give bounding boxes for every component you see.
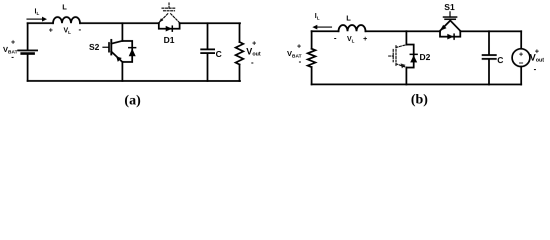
svg-text:(b): (b): [411, 93, 428, 108]
svg-text:IL: IL: [315, 13, 320, 21]
wire: right branch bottom (a): [238, 64, 240, 81]
label Vout (a): [246, 40, 261, 67]
wire: left branch (a): [27, 23, 29, 81]
wire: top rail inductor to D1 loop (a): [80, 22, 159, 24]
wire: C branch top (b): [488, 31, 490, 54]
svg-text:D2: D2: [419, 52, 430, 62]
label IL (b): [315, 13, 320, 21]
svg-text:(a): (a): [124, 94, 141, 109]
wire: top rail D1 to top-right corner (a): [180, 22, 240, 24]
current arrow IL (a): [27, 18, 44, 20]
svg-text:-: -: [78, 25, 81, 34]
label S1: [444, 2, 455, 12]
caption (a): [124, 94, 141, 109]
transistor S1 (IGBT): [440, 12, 460, 31]
svg-text:-: -: [299, 57, 302, 66]
wire: S2 branch bottom (a): [121, 62, 123, 81]
wire: D2 branch top (b): [405, 31, 407, 44]
transistor S1 shown dashed (a): [159, 3, 180, 23]
svg-text:IL: IL: [35, 8, 40, 16]
wire: bottom rail (a): [28, 80, 240, 82]
label D1: [164, 35, 175, 45]
svg-text:S2: S2: [89, 42, 100, 52]
svg-text:VL: VL: [347, 36, 355, 44]
current arrow IL (b): [316, 26, 332, 28]
svg-text:S1: S1: [444, 2, 455, 12]
wire: source branch top (b): [520, 31, 522, 48]
label D2: [419, 52, 430, 62]
caption (b): [411, 93, 428, 108]
label L (b): [346, 13, 351, 22]
inductor L (b): [339, 25, 366, 31]
label L (a): [62, 2, 67, 11]
battery VBAT (a): [18, 50, 37, 53]
capacitor C (b): [483, 55, 496, 59]
label VBAT (a): [3, 40, 18, 62]
voltage source Vout (b): [512, 49, 530, 67]
wire: C branch bottom (a): [206, 53, 208, 80]
resistor VBAT (b): [308, 49, 316, 67]
svg-text:-: -: [334, 33, 337, 42]
wire: C branch top (a): [207, 23, 209, 49]
label S2: [89, 42, 100, 52]
svg-text:Vout: Vout: [246, 46, 261, 57]
svg-text:C: C: [216, 49, 222, 59]
capacitor C (a): [201, 49, 214, 53]
inductor L (a): [53, 17, 80, 23]
svg-text:-: -: [11, 52, 14, 61]
svg-text:+: +: [297, 44, 301, 51]
diode D1: [159, 23, 180, 31]
wire: S2 branch top (a): [121, 23, 123, 41]
svg-text:+: +: [11, 40, 15, 47]
svg-text:D1: D1: [164, 35, 175, 45]
label VL (b) with polarity: [334, 33, 367, 43]
label C (a): [216, 49, 222, 59]
wire: C branch bottom (b): [488, 59, 490, 84]
wire: source branch bottom (b): [520, 67, 522, 85]
wire: left branch bottom (b): [311, 67, 313, 84]
diode: S1 antiparallel diode: [440, 31, 460, 39]
label Vout (b): [530, 49, 545, 74]
transistor S2 (IGBT): [103, 40, 122, 62]
svg-text:L: L: [62, 2, 67, 11]
svg-text:+: +: [49, 28, 53, 35]
label IL (a): [35, 8, 40, 16]
label C (b): [497, 55, 503, 65]
diode: S2 antiparallel diode: [122, 41, 135, 62]
transistor S2 shown dashed (b): [389, 45, 407, 68]
label VL (a) with polarity: [49, 25, 82, 35]
diode D2: [406, 45, 417, 68]
svg-text:VL: VL: [64, 27, 72, 35]
wire: figure (b) left branch top with corner: [311, 31, 313, 48]
svg-text:-: -: [251, 58, 254, 67]
svg-text:+: +: [252, 40, 256, 47]
wire: top rail corner to inductor (b): [312, 30, 339, 32]
wire: top rail S1 to top-right corner (b): [460, 30, 521, 32]
svg-text:-: -: [534, 65, 537, 74]
resistor load Vout (a): [236, 42, 244, 65]
wire: bottom rail (b): [312, 83, 522, 85]
wire: right branch top (a): [239, 23, 241, 42]
label VBAT (b): [287, 44, 302, 66]
svg-text:+: +: [363, 36, 367, 43]
svg-text:C: C: [497, 55, 503, 65]
wire: D2 branch bottom (b): [405, 68, 407, 85]
wire: figure (a) top rail, battery to inductor: [28, 22, 53, 24]
wire: top rail inductor to S1 (b): [366, 30, 441, 32]
svg-text:L: L: [346, 13, 351, 22]
